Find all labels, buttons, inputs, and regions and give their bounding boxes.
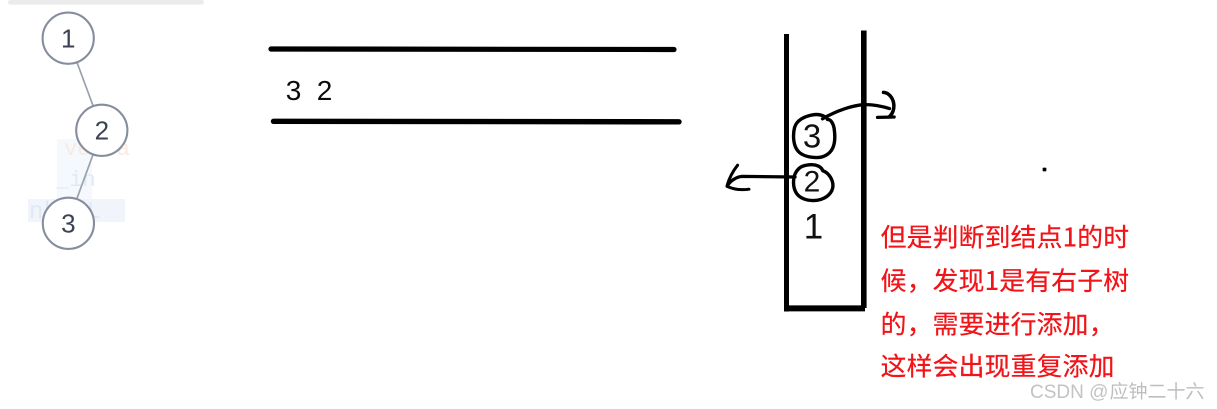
arrow pop 2 lower barb — [727, 186, 749, 189]
arrow pop 2 to the left (main line) — [728, 176, 795, 185]
svg-text:2: 2 — [804, 166, 821, 199]
arrow pop 3 to the right (curved line) — [823, 105, 890, 119]
hand-drawn circle around 2 — [793, 165, 832, 201]
CSDN watermark name 应钟二十六 — [1110, 382, 1203, 400]
deque bottom line — [274, 119, 680, 125]
red annotation line 1 — [881, 225, 1128, 249]
tree node 3 circle — [43, 198, 94, 249]
stack bottom line — [785, 305, 865, 311]
svg-text:2: 2 — [95, 116, 109, 146]
svg-text:CSDN @: CSDN @ — [1030, 382, 1108, 403]
stack right wall — [861, 31, 867, 309]
svg-text:_in: _in — [55, 168, 96, 193]
tree edge node1-node2 — [77, 62, 93, 105]
deque top line — [271, 46, 674, 52]
svg-text:1: 1 — [804, 208, 823, 247]
svg-text:2: 2 — [317, 75, 333, 106]
svg-text:3: 3 — [61, 209, 75, 239]
svg-text:3: 3 — [803, 118, 821, 155]
red annotation line 4 — [881, 353, 1112, 377]
arrow pop 3 hook head — [884, 92, 894, 116]
svg-text:3: 3 — [286, 75, 302, 106]
red annotation line 3 — [883, 312, 1098, 337]
top-left light gray strip (scrollbar remnant) — [8, 0, 204, 5]
stray ink dot — [1043, 168, 1047, 172]
arrow pop 2 upper barb — [727, 165, 737, 185]
red annotation line 2 — [881, 268, 1128, 293]
stack left wall — [784, 34, 789, 312]
faint code highlight band behind tree — [57, 139, 92, 201]
svg-text:1: 1 — [61, 24, 75, 54]
hand-drawn circle around 3 — [794, 115, 835, 158]
tree node 1 circle — [43, 13, 94, 64]
arrow pop 3 barb — [878, 115, 895, 119]
tree edge node2-node3 — [77, 154, 93, 198]
tree node 2 circle — [76, 105, 127, 156]
